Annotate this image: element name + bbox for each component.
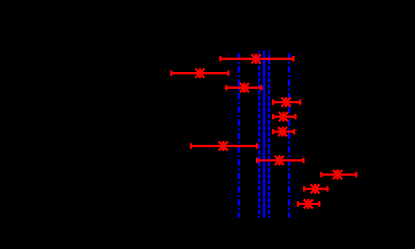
reference line (dash-dot) x=238.8: [238, 51, 240, 218]
error bar row 10: [304, 184, 327, 194]
error bar row 9: [321, 170, 356, 180]
reference line (dashed) x=269.1: [268, 51, 270, 218]
error bar row 6: [273, 127, 294, 137]
error bar row 5: [273, 112, 295, 122]
error bar row 11: [298, 199, 319, 209]
reference line (dashed) x=259.2: [258, 51, 260, 218]
reference line (dash-dot) x=289.1: [288, 51, 290, 218]
error bar row 4: [273, 97, 300, 107]
error bar row 1: [220, 54, 293, 64]
error bar row 2: [171, 68, 228, 78]
error bar row 8: [257, 155, 303, 165]
error bar row 3: [226, 83, 261, 93]
reference line (solid) x=264.1: [263, 51, 265, 218]
error bar row 7: [191, 141, 257, 151]
